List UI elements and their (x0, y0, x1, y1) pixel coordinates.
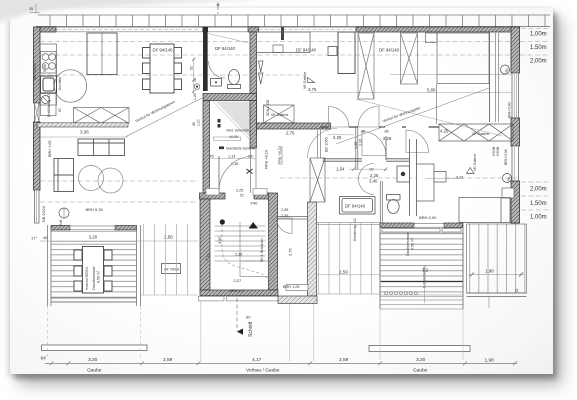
svg-text:80: 80 (370, 168, 374, 172)
svg-text:3,75: 3,75 (308, 87, 317, 92)
WC room right wall (250, 32, 257, 135)
svg-text:3,20: 3,20 (416, 357, 426, 363)
bedroom top right big rect (426, 33, 490, 84)
svg-text:2,59: 2,59 (339, 270, 348, 275)
living room sofa (54, 139, 125, 193)
roof window X-brace 1 (358, 33, 374, 99)
lower stair left wall (200, 199, 210, 290)
svg-text:35: 35 (29, 7, 33, 11)
bath left wall with X-braced roof window (310, 158, 325, 202)
svg-text:Dachterrasse: Dachterrasse (405, 231, 410, 256)
door arc D (362, 132, 386, 156)
svg-text:Gaube: Gaube (87, 368, 102, 374)
Schnitt marker (236, 298, 238, 331)
svg-text:Holzrost 50/50 lt.: Holzrost 50/50 lt. (85, 266, 89, 290)
left terrace planks (51, 242, 137, 303)
triangle mark mid (308, 78, 315, 83)
svg-text:HSVB: HSVB (496, 146, 500, 156)
left exterior wall (34, 27, 41, 103)
svg-text:Gaube: Gaube (413, 368, 428, 374)
center terrace side lines (379, 223, 381, 309)
svg-text:VK Galerie: VK Galerie (473, 154, 477, 171)
floor boards strip between terrace and stair (141, 224, 198, 295)
svg-text:F90: F90 (251, 201, 259, 206)
stair dims row (210, 158, 257, 160)
round table (54, 70, 86, 102)
left dormer sill band (51, 226, 70, 231)
svg-text:DF 94/140: DF 94/140 (215, 46, 236, 51)
sink unit (41, 76, 57, 93)
svg-text:2,00m: 2,00m (530, 59, 547, 65)
vent shaft triangles (259, 61, 264, 84)
bathtub with skylight label (340, 197, 376, 215)
svg-text:Kochfeld: Kochfeld (58, 77, 62, 90)
svg-text:4,17: 4,17 (252, 357, 262, 363)
svg-text:60: 60 (246, 315, 251, 320)
black wall column left of WC (203, 32, 208, 91)
svg-text:2,76: 2,76 (288, 247, 293, 256)
svg-text:BRH 1,05: BRH 1,05 (48, 141, 52, 157)
svg-text:1,20: 1,20 (359, 139, 363, 146)
lower stair right wall (269, 193, 278, 290)
tilted page top-left corner: background wedge (0, 0, 255, 26)
svg-text:DF 94/140: DF 94/140 (345, 204, 366, 209)
closet right of bath (417, 164, 435, 201)
corridor dim line (349, 168, 388, 170)
center eave bar (369, 346, 470, 352)
lower stair bottom band (200, 290, 278, 296)
svg-text:WD 20/20: WD 20/20 (33, 63, 37, 80)
svg-text:Vorbau / Gaube: Vorbau / Gaube (246, 368, 280, 374)
corridor top wall hatched (257, 123, 331, 129)
svg-text:52: 52 (190, 66, 194, 70)
svg-text:BRH 0,90: BRH 0,90 (508, 102, 512, 118)
svg-text:BRH 2,17: BRH 2,17 (230, 289, 246, 293)
svg-text:3,50: 3,50 (218, 237, 222, 244)
svg-text:46: 46 (43, 235, 48, 240)
wall line below bedroom rect (436, 84, 438, 124)
walk line arrow up (249, 222, 259, 229)
svg-text:5,98: 5,98 (42, 63, 47, 72)
middle bedroom door arc (277, 218, 293, 234)
roof window X-brace 2 (401, 33, 418, 84)
svg-text:64: 64 (41, 356, 47, 362)
svg-text:45: 45 (192, 122, 196, 126)
svg-text:86: 86 (385, 130, 389, 134)
svg-text:DF 94/140: DF 94/140 (379, 48, 400, 53)
stair core right wall upper (250, 101, 257, 149)
diagonal annotation left (125, 98, 202, 137)
walk line start dot (220, 219, 225, 224)
toilet (387, 195, 401, 214)
svg-text:2,00m: 2,00m (530, 187, 547, 193)
svg-text:Kleiderstg. LÜ: Kleiderstg. LÜ (353, 218, 357, 241)
svg-text:VK Galerie: VK Galerie (271, 113, 288, 117)
svg-text:1,20: 1,20 (197, 119, 201, 126)
svg-text:1,00m: 1,00m (530, 215, 547, 221)
svg-text:Dachterrasse: Dachterrasse (91, 265, 96, 290)
roof slope dashed lines bottom (40, 180, 198, 182)
toilet in WC (211, 70, 241, 89)
svg-text:Schnitt: Schnitt (248, 321, 254, 337)
tall cabinet at top wall (87, 33, 117, 75)
stair right wall lower thin continuation (250, 148, 252, 193)
center dormer sill band (380, 223, 414, 228)
door arc into corridor (apartment door) (219, 156, 254, 191)
svg-text:BD 2050: BD 2050 (325, 137, 329, 152)
svg-text:2,25: 2,25 (236, 189, 243, 193)
chairs right (174, 48, 182, 59)
svg-text:3,20: 3,20 (89, 235, 98, 240)
bath right wall (323, 139, 417, 216)
bed bottom right (459, 198, 510, 223)
threshold dark (219, 147, 224, 150)
VK Galerie crossed band right (439, 124, 513, 141)
bedroom floor boards right of stair (317, 223, 380, 294)
svg-text:3,20: 3,20 (88, 357, 98, 363)
DF 78/98 skylight (162, 264, 181, 274)
svg-text:1,26: 1,26 (193, 93, 197, 100)
svg-text:DF 94/140: DF 94/140 (153, 48, 174, 53)
circled vent symbol (59, 208, 69, 218)
svg-text:2,59: 2,59 (339, 357, 349, 363)
chairs left (143, 48, 151, 59)
svg-text:±0,00: ±0,00 (229, 135, 238, 139)
svg-text:52: 52 (240, 194, 244, 198)
svg-text:4,50 m²: 4,50 m² (411, 237, 415, 250)
center terrace planks (380, 233, 463, 295)
stair treads lower (215, 222, 269, 277)
north cross symbol (247, 169, 253, 174)
sloped ceiling shading in stair landing (213, 102, 249, 137)
VK Galerie crossed rect (left one) (264, 105, 295, 123)
svg-text:BRH 0,30: BRH 0,30 (86, 207, 104, 212)
vent circle on kitchen wall (42, 96, 50, 104)
svg-text:mind. Verkehrsfl.: mind. Verkehrsfl. (226, 129, 250, 133)
svg-text:1,54: 1,54 (336, 167, 345, 172)
svg-text:3,40: 3,40 (369, 179, 378, 184)
roof slope dashed lines top (40, 41, 549, 43)
svg-text:2,27: 2,27 (234, 278, 243, 283)
svg-text:2,36: 2,36 (235, 253, 242, 257)
svg-text:RFB +8,10: RFB +8,10 (264, 149, 269, 169)
svg-text:1,98: 1,98 (485, 358, 495, 364)
left eave bar (42, 345, 148, 351)
svg-text:2,25: 2,25 (370, 173, 379, 178)
WC door arc (208, 61, 225, 78)
svg-text:1,14: 1,14 (228, 154, 235, 158)
diagonal annotation right (336, 88, 489, 144)
right dormer vertical planks (467, 224, 527, 293)
knee wall under sideboard (37, 123, 128, 127)
svg-text:BRH 1,05: BRH 1,05 (283, 285, 299, 289)
svg-text:2,25: 2,25 (383, 136, 392, 141)
door arc C (406, 130, 429, 153)
stair core top band (203, 94, 257, 101)
svg-text:2,76: 2,76 (286, 131, 295, 136)
svg-text:BRH 0,00: BRH 0,00 (419, 215, 437, 220)
svg-text:2,35: 2,35 (281, 214, 288, 218)
WC room outline (208, 32, 251, 91)
circled symbol top right (501, 65, 510, 74)
svg-text:45: 45 (210, 154, 214, 158)
svg-text:BRH 0,36: BRH 0,36 (504, 149, 508, 165)
svg-text:8,50 m²: 8,50 m² (97, 270, 101, 283)
svg-text:3,36: 3,36 (80, 130, 89, 135)
svg-text:1,98: 1,98 (485, 269, 494, 274)
stair core left wall (203, 101, 210, 200)
svg-text:VK Galerie: VK Galerie (472, 132, 489, 136)
svg-text:17°: 17° (31, 236, 37, 241)
partition wall lines right rooms (489, 32, 491, 122)
svg-text:1,35: 1,35 (354, 142, 358, 149)
top wardrobe rect (257, 32, 311, 53)
svg-text:Granitstufe Schwelle: Granitstufe Schwelle (226, 147, 255, 151)
svg-text:DF 94/140: DF 94/140 (296, 48, 317, 53)
svg-text:5,80: 5,80 (427, 88, 436, 93)
terrace table + chairs (74, 247, 112, 294)
coffee table circles (79, 166, 104, 191)
sideboard crossed (74, 108, 130, 124)
left wall window section (35, 190, 40, 223)
left dormer side jambs (48, 225, 141, 306)
svg-text:2,25: 2,25 (333, 135, 342, 140)
door arc A (329, 107, 350, 128)
kitchen counter run left wall (40, 44, 57, 105)
svg-text:Verbot für Wohnungstüren: Verbot für Wohnungstüren (135, 100, 176, 124)
dining table (143, 44, 182, 93)
stove (41, 52, 57, 74)
door arc B (358, 106, 379, 127)
svg-text:95: 95 (361, 130, 365, 134)
right exterior wall (511, 27, 520, 73)
svg-text:1,50m: 1,50m (530, 45, 547, 51)
svg-text:Entlüftung i.D.: Entlüftung i.D. (47, 93, 51, 117)
svg-text:NB 20/20: NB 20/20 (42, 206, 46, 222)
svg-text:4,25: 4,25 (440, 129, 449, 134)
svg-text:VK Galerie: VK Galerie (303, 72, 307, 89)
svg-text:SD lt. Brandsch.: SD lt. Brandsch. (260, 237, 264, 262)
lower cabinet items (41, 94, 57, 116)
stair walk line dashed (222, 224, 268, 279)
svg-text:60: 60 (58, 108, 62, 112)
center-left guide dashed verticals (47, 306, 49, 360)
svg-text:2,05: 2,05 (281, 208, 288, 212)
roof overhang comb top (38, 15, 550, 27)
second sofa vertical (54, 159, 74, 192)
section cut mark top (217, 2, 219, 14)
svg-text:2,59: 2,59 (163, 357, 173, 363)
svg-text:1,00m: 1,00m (530, 32, 547, 38)
stair room top wall with door gap (200, 193, 226, 199)
svg-text:1,50m: 1,50m (530, 201, 547, 207)
svg-text:FFB +8,22: FFB +8,22 (277, 145, 282, 165)
small box (328, 47, 337, 56)
washbasin (397, 166, 410, 182)
corridor walls and doors zone (320, 126, 439, 128)
top exterior wall : mixed light/dark segments (36, 27, 520, 40)
dotted row (385, 292, 418, 295)
second wardrobe tall (338, 32, 355, 74)
svg-text:SDN-L OG: SDN-L OG (266, 99, 270, 116)
svg-text:Entl.: Entl. (59, 219, 63, 226)
door arc E (bath door) (359, 164, 375, 195)
